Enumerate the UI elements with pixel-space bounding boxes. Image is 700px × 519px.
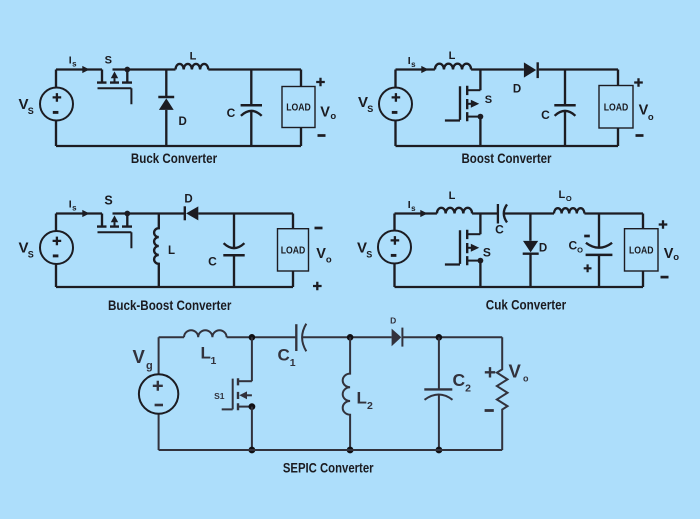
inductor L (boost) <box>435 64 471 70</box>
junction node (L1/S1/C1) <box>249 334 256 341</box>
load box <box>599 86 633 129</box>
output - <box>485 409 494 412</box>
current arrow Is (buck-boost) <box>82 210 89 217</box>
inductor L (buck-boost, vertical) <box>154 214 159 288</box>
capacitor C1 (series) <box>296 324 306 352</box>
svg-text:LOAD: LOAD <box>629 245 654 256</box>
transistor S (boost) (MOSFET, vertical) <box>445 70 483 147</box>
output + <box>634 78 643 87</box>
wire cuk: load bottom lead <box>642 271 644 287</box>
junction node (C2 bottom) <box>436 447 443 454</box>
svg-text:L: L <box>190 51 197 63</box>
current arrow Is (cuk) <box>420 210 427 217</box>
svg-text:Buck Converter: Buck Converter <box>131 151 218 166</box>
svg-text:g: g <box>146 360 153 372</box>
capacitor C (buck-boost) <box>223 214 244 288</box>
svg-text:L: L <box>357 389 367 408</box>
svg-text:o: o <box>523 374 529 384</box>
wire boost source leads <box>394 70 396 147</box>
svg-text:D: D <box>390 316 396 326</box>
svg-text:C: C <box>278 346 290 365</box>
capacitor C (cuk, series) <box>498 204 507 224</box>
wire cuk: Lo to load corner <box>584 214 643 229</box>
current arrow Is (boost) <box>421 66 428 73</box>
svg-text:Cuk Converter: Cuk Converter <box>486 297 567 312</box>
voltage source Vg (sepic) <box>139 374 178 413</box>
svg-text:S: S <box>28 106 34 116</box>
svg-text:2: 2 <box>465 383 471 395</box>
svg-text:O: O <box>577 246 583 255</box>
transistor S (buck-boost) (MOSFET, horizontal) <box>97 211 132 249</box>
output + <box>659 220 668 229</box>
wire boost: load bottom lead <box>617 128 619 146</box>
svg-text:o: o <box>330 111 336 122</box>
svg-text:S: S <box>28 250 34 260</box>
wire buck-boost bottom rail <box>56 286 293 288</box>
voltage source Vs (buck) <box>40 88 73 121</box>
load box <box>625 229 659 271</box>
wire cuk: inductor to cap C <box>472 212 498 214</box>
svg-text:D: D <box>184 194 192 206</box>
svg-text:C: C <box>208 255 217 269</box>
svg-text:C: C <box>453 370 466 390</box>
wire buck top: source to switch <box>56 68 102 70</box>
svg-text:S: S <box>104 194 112 208</box>
svg-text:D: D <box>513 84 521 96</box>
wire buck: switch to inductor <box>113 68 176 70</box>
svg-text:S1: S1 <box>214 391 225 401</box>
current arrow Is (buck) <box>82 66 89 73</box>
wire buck-boost: load bottom lead <box>292 271 294 287</box>
svg-text:Boost Converter: Boost Converter <box>462 151 553 166</box>
svg-text:o: o <box>648 112 654 123</box>
wire sepic: C1 to diode <box>302 336 391 338</box>
wire boost: diode to load corner <box>539 70 618 86</box>
inductor L (buck) <box>176 64 209 70</box>
diode D (sepic, horizontal) <box>392 328 403 347</box>
svg-text:V: V <box>509 361 522 382</box>
output + <box>485 367 495 377</box>
svg-text:S: S <box>485 94 492 106</box>
wire buck bottom rail <box>56 145 301 147</box>
polarity - of Co <box>584 235 590 238</box>
svg-text:LOAD: LOAD <box>281 245 306 256</box>
inductor L (cuk) <box>437 208 472 214</box>
svg-text:S: S <box>483 245 491 259</box>
junction node (S1 source, bottom) <box>249 447 256 454</box>
svg-text:o: o <box>326 255 332 266</box>
wire cuk bottom rail <box>395 286 644 288</box>
svg-text:S: S <box>105 54 112 66</box>
diode D (cuk, pointing down) <box>523 214 539 288</box>
diode D (buck-boost, pointing left) <box>185 206 199 220</box>
svg-text:S: S <box>367 104 373 114</box>
voltage source Vs (cuk) <box>378 231 411 264</box>
svg-text:L: L <box>559 189 566 201</box>
capacitor C2 <box>424 337 452 450</box>
svg-text:L: L <box>201 344 211 363</box>
load box <box>282 87 315 128</box>
transistor S1 (MOSFET, vertical) <box>222 337 256 450</box>
wire cuk top: source to inductor <box>395 212 437 214</box>
svg-text:V: V <box>133 346 146 367</box>
svg-text:L: L <box>449 50 456 62</box>
transistor S (cuk) (MOSFET, vertical) <box>445 214 483 288</box>
voltage source Vs (boost) <box>379 88 412 121</box>
wire sepic: L1 to C1 <box>227 336 297 338</box>
svg-text:LOAD: LOAD <box>286 103 311 114</box>
inductor L1 <box>184 330 227 337</box>
svg-text:Buck-Boost Converter: Buck-Boost Converter <box>108 298 232 313</box>
Buck converter circuit <box>19 51 337 167</box>
wire buck-boost: switch to diode <box>113 212 185 214</box>
output - <box>636 134 644 137</box>
output - <box>661 276 669 279</box>
output + <box>313 282 322 291</box>
svg-text:s: s <box>72 59 77 68</box>
svg-text:o: o <box>673 252 679 263</box>
Boost converter circuit <box>358 50 654 166</box>
svg-text:2: 2 <box>367 400 373 412</box>
svg-text:L: L <box>168 245 175 257</box>
wire buck-boost source leads <box>55 214 57 288</box>
wire sepic: source leads <box>159 337 184 450</box>
junction node (L2 bottom) <box>347 447 354 454</box>
wire buck: inductor to load corner <box>208 70 301 87</box>
output - <box>318 134 326 137</box>
svg-text:S: S <box>366 250 372 260</box>
polarity + of Co <box>584 264 592 272</box>
svg-text:C: C <box>541 108 550 122</box>
svg-text:D: D <box>179 116 187 128</box>
SEPIC converter circuit <box>133 316 530 476</box>
wire sepic: diode to output <box>402 336 502 338</box>
wire boost bottom rail <box>396 145 619 147</box>
inductor Lo (cuk) <box>554 208 584 213</box>
svg-text:LOAD: LOAD <box>604 102 629 113</box>
wire cuk: cap C to Lo <box>503 212 554 214</box>
Buck-Boost converter circuit <box>19 194 332 313</box>
svg-text:V: V <box>316 246 326 262</box>
capacitor C (boost) <box>554 70 575 147</box>
svg-text:C: C <box>495 223 504 237</box>
svg-text:L: L <box>449 190 456 202</box>
capacitor C (buck) <box>241 70 262 147</box>
wire buck-boost: diode to load corner <box>198 214 293 229</box>
wire buck-boost top: source to switch <box>56 212 102 214</box>
resistor R load (zigzag) <box>497 337 508 450</box>
svg-text:s: s <box>411 204 416 213</box>
wire cuk source leads <box>393 214 395 288</box>
wire boost top: source to inductor <box>396 68 435 70</box>
svg-text:V: V <box>320 105 330 121</box>
svg-text:s: s <box>72 203 77 212</box>
inductor L2 (vertical) <box>343 337 350 450</box>
wire buck: load bottom lead <box>300 128 302 147</box>
wire buck source leads <box>55 70 57 147</box>
svg-text:1: 1 <box>290 357 296 369</box>
output + <box>316 78 325 87</box>
diode D (buck, vertical) <box>158 70 174 147</box>
load box <box>278 229 309 271</box>
svg-text:D: D <box>539 243 547 255</box>
svg-text:1: 1 <box>211 355 217 367</box>
junction node (D/C2) <box>436 334 443 341</box>
capacitor Co (cuk) <box>586 214 613 288</box>
output - <box>315 227 323 230</box>
junction node (C1/L2/D) <box>347 334 354 341</box>
wire boost: inductor to diode <box>471 68 524 70</box>
Cuk converter circuit <box>357 189 679 312</box>
wire sepic bottom rail <box>159 449 503 451</box>
svg-text:s: s <box>411 60 416 69</box>
svg-text:SEPIC Converter: SEPIC Converter <box>283 460 374 475</box>
transistor S (buck) (MOSFET, horizontal) <box>97 67 132 105</box>
svg-text:C: C <box>227 106 236 120</box>
svg-text:O: O <box>566 194 572 203</box>
diode D (boost, horizontal) <box>524 62 538 78</box>
voltage source Vs (buck-boost) <box>40 231 73 264</box>
